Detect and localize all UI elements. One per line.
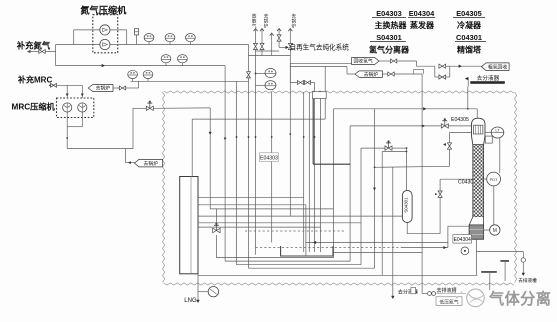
wire boiler line 2 right: [382, 69, 423, 76]
wire vent collector: [249, 51, 291, 56]
svg-text:气: 气: [252, 23, 257, 29]
label 去锅炉 vertical a: [264, 13, 269, 30]
svg-text:E04304: E04304: [409, 9, 435, 18]
valve station with bypass: [435, 64, 450, 79]
svg-text:补充氮气: 补充氮气: [16, 40, 51, 50]
label MRC压缩机: [12, 102, 56, 112]
wire MRC suction drops: [66, 85, 83, 98]
wire tee 151: [382, 151, 407, 153]
wire riser to ovals: [138, 81, 140, 88]
banner 去锅炉 c: [355, 71, 383, 78]
wire HX top entry: [209, 108, 211, 209]
svg-text:蒸发器: 蒸发器: [410, 20, 435, 30]
instrument PI-5: [143, 70, 153, 81]
wire H2 step: [417, 61, 435, 66]
compressor stage K1b: [100, 39, 110, 49]
svg-text:主换热器: 主换热器: [375, 20, 408, 30]
pump circle: [198, 287, 219, 297]
svg-text:MRC压缩机: MRC压缩机: [12, 102, 56, 112]
banner 回收氢气: [352, 58, 380, 65]
instrument oval pair: [255, 68, 276, 89]
nozzle box: [485, 136, 492, 143]
wire U2: [225, 66, 350, 262]
wire branch to boiler banner: [125, 149, 134, 164]
compressor stage K2a: [63, 103, 72, 112]
wire column feed: [440, 178, 472, 180]
svg-text:E04303: E04303: [376, 9, 401, 18]
valve on riser x244: [247, 45, 251, 269]
watermark logo: [451, 289, 484, 307]
wire MRC to cold box: [133, 107, 146, 109]
heat exchanger E04303 block: [180, 177, 198, 274]
svg-text:精馏塔: 精馏塔: [457, 45, 482, 55]
svg-text:炉: 炉: [291, 23, 296, 30]
valve circle on drain: [521, 258, 525, 276]
svg-text:E04305: E04305: [456, 9, 481, 18]
flare bar symbol: [465, 77, 505, 86]
svg-text:LT: LT: [495, 127, 500, 132]
wire LNG line: [197, 274, 200, 303]
compressor K1 dashed box: [93, 15, 118, 53]
label 去排液槽 bottom: [437, 287, 457, 294]
wire N2 bypass right: [110, 30, 127, 45]
wire N2 suction: [56, 44, 118, 46]
banner 去锅炉 a: [88, 85, 113, 92]
wire top feed to condenser: [334, 108, 478, 119]
wire drop set: [303, 92, 321, 252]
control valve condenser feed: [441, 118, 471, 128]
MRC makeup arrow+valve: [49, 83, 82, 87]
valve col feed: [444, 143, 452, 149]
instrument PDT circle: [481, 172, 500, 225]
label 自再生气去纯化系统: [290, 43, 350, 52]
svg-text:去分液器: 去分液器: [477, 74, 500, 82]
vent riser 5: [288, 29, 292, 217]
column bottom cone: [469, 217, 483, 239]
svg-text:LNG: LNG: [184, 298, 197, 304]
label LNG: [184, 298, 197, 304]
wire reboiler left: [448, 225, 469, 227]
header E04305: [453, 9, 485, 18]
wire U1: [216, 109, 333, 258]
vent riser 3: [270, 33, 274, 56]
header 冷凝器: [457, 20, 482, 30]
wire drain to right: [476, 251, 523, 253]
header S04301: [370, 33, 406, 42]
wire link 325: [324, 67, 326, 120]
header 蒸发器: [410, 20, 435, 30]
column C04301 shell: [472, 118, 486, 144]
wire entry second: [192, 118, 325, 120]
subcooler dark U: [281, 246, 333, 256]
wire MRC discharge loop: [66, 108, 133, 148]
svg-text:去锅炉: 去锅炉: [96, 85, 111, 92]
wire N2 bypass left: [74, 30, 100, 45]
wire long h5: [198, 226, 321, 228]
banner 去锅炉 b: [135, 159, 163, 167]
valve H2 line: [379, 59, 416, 63]
label 去分液器 top: [477, 74, 500, 82]
reboiler E04304 shaded: [469, 225, 483, 239]
wire drain 392 exit: [392, 296, 395, 299]
control valve MRC feed: [146, 101, 210, 111]
banner 粗氢回收: [482, 63, 510, 71]
instrument PI-3: [186, 34, 196, 45]
svg-text:E04305: E04305: [451, 117, 469, 123]
label C04301 tag: [458, 180, 476, 186]
wire long h2: [210, 208, 333, 210]
instrument PI-4: [128, 70, 138, 81]
wire H2 recovery feed: [290, 62, 351, 64]
wire long h1: [198, 205, 306, 256]
label E04303 inner: [259, 153, 278, 162]
wire LIC to PDT: [499, 138, 501, 173]
header E04304: [408, 9, 435, 18]
wire dark shelf: [333, 252, 422, 254]
svg-text:自再生气去纯化系统: 自再生气去纯化系统: [290, 43, 350, 52]
valve separator bottoms: [435, 191, 442, 197]
svg-text:E04304: E04304: [454, 237, 471, 243]
wire long h3: [198, 215, 402, 217]
wire long h0: [198, 196, 304, 198]
wire valve line 148: [361, 147, 385, 149]
wire right drain: [522, 252, 524, 273]
separator S04301 vessel: [402, 190, 412, 222]
compressor stage K2b: [78, 103, 87, 112]
wire h167: [374, 166, 450, 168]
label E04304 tag: [453, 235, 472, 244]
header 氢气分离器: [369, 45, 410, 55]
header 精馏塔: [457, 45, 482, 55]
wire v392: [392, 167, 394, 295]
wire N2 main discharge: [118, 44, 249, 46]
svg-text:冷凝器: 冷凝器: [457, 20, 482, 30]
vent riser 1: [254, 29, 258, 255]
motor M circle: [484, 225, 500, 235]
wire h 242: [306, 241, 448, 243]
wire col mid feed: [450, 133, 472, 167]
instrument TI-1: [161, 55, 171, 66]
wire regen gas line: [279, 46, 288, 49]
svg-text:去锅炉: 去锅炉: [364, 71, 379, 78]
control valve 148: [385, 140, 407, 150]
wire column bottoms: [475, 239, 477, 275]
label 补充MRC: [17, 75, 52, 85]
header E04303: [372, 9, 406, 18]
watermark 气体分离: [488, 290, 551, 308]
wire to crude banner: [450, 65, 482, 68]
svg-text:C04301: C04301: [456, 33, 482, 42]
instrument LIC oval: [485, 127, 504, 138]
seal box on border: [313, 92, 327, 99]
label 放散气 vertical: [252, 13, 257, 29]
wire MRC third header: [131, 80, 249, 82]
wire separator bottoms: [407, 179, 440, 234]
instrument TI-2: [178, 55, 188, 66]
wire boiler vent line: [113, 87, 120, 89]
vent valve on N2 line: [135, 29, 139, 45]
label 去排液槽 right: [518, 277, 537, 284]
svg-text:去排液槽: 去排液槽: [518, 277, 537, 284]
wire N2 return header: [56, 64, 226, 67]
header C04301: [455, 33, 486, 42]
svg-text:回收氢气: 回收氢气: [353, 58, 372, 65]
valve on boiler vent: [119, 86, 138, 90]
label 补充氮气: [16, 40, 51, 50]
wire banner feed: [290, 67, 355, 75]
compressor stage K1a: [100, 25, 110, 35]
wire v382: [381, 152, 383, 276]
vent riser 4: [277, 29, 281, 48]
svg-text:氢气分离器: 氢气分离器: [369, 45, 410, 55]
vent T symbol b: [500, 260, 509, 281]
wire dashed signal: [245, 230, 345, 232]
wire feed to condenser side: [350, 125, 441, 128]
svg-text:补充MRC: 补充MRC: [17, 75, 52, 85]
wire N2 makeup riser: [55, 45, 57, 66]
label E04305 tag: [451, 117, 469, 123]
wire separator feed: [406, 148, 408, 190]
drain flanges: [428, 292, 466, 296]
wire into HX top: [191, 119, 193, 176]
wire inside HX: [190, 177, 192, 274]
svg-text:去锅炉: 去锅炉: [144, 160, 159, 167]
wire bottoms run: [198, 274, 477, 276]
label 低压氮气 box: [436, 297, 462, 306]
vent riser 2: [260, 29, 264, 56]
wire v271 inside: [271, 92, 273, 243]
label 氮气压缩机: [80, 4, 127, 15]
control valve cold: [213, 223, 220, 233]
N2 makeup arrow+valve: [28, 50, 56, 54]
wire seal drop: [314, 83, 316, 253]
vent T symbol a: [481, 271, 497, 290]
svg-text:S04301: S04301: [376, 33, 401, 42]
wire U4: [249, 267, 375, 269]
wire h 247 solid: [401, 226, 448, 249]
wire v374: [373, 109, 375, 268]
svg-text:M: M: [493, 228, 497, 234]
small instrument dot circle: [461, 247, 469, 255]
svg-text:去排液槽: 去排液槽: [437, 287, 457, 294]
svg-text:PDT: PDT: [490, 177, 499, 182]
wire valve pair line: [290, 63, 314, 84]
label 去锅炉 vertical b: [291, 13, 296, 30]
wire U3: [236, 81, 361, 264]
instrument PI-1: [144, 34, 154, 45]
svg-text:炉: 炉: [264, 23, 269, 30]
svg-text:低压氮气: 低压氮气: [439, 298, 458, 305]
svg-text:S04301: S04301: [403, 197, 408, 213]
label 去分液器 bottom: [398, 288, 418, 296]
compressor K2 dashed box: [57, 98, 94, 118]
svg-text:E04303: E04303: [260, 156, 278, 162]
wire long h4: [198, 222, 361, 224]
column packing: [473, 145, 484, 217]
svg-text:氮气压缩机: 氮气压缩机: [80, 4, 127, 15]
svg-text:粗氢回收: 粗氢回收: [488, 63, 507, 70]
wire condenser drop: [467, 87, 469, 110]
wire drain 422: [422, 74, 427, 294]
wire h 247 dashed: [256, 247, 402, 249]
header 主换热器: [375, 20, 408, 30]
svg-text:气体分离: 气体分离: [488, 290, 551, 308]
instrument PI-2: [165, 34, 175, 45]
condenser bundle: [474, 125, 483, 134]
wire dark drop: [313, 99, 350, 165]
cold box boundary (zigzag border): [163, 91, 517, 285]
